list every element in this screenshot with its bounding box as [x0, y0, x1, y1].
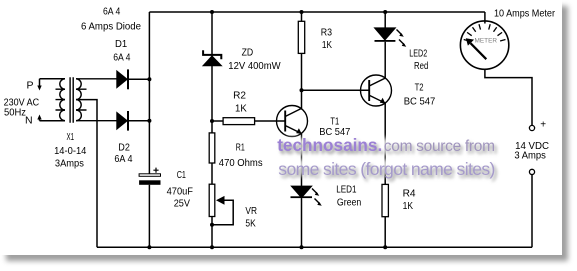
LED1 [291, 186, 322, 247]
svg-text:some sites (forgot name sites): some sites (forgot name sites) [278, 159, 494, 179]
resistor R3 [298, 12, 304, 109]
wire P lead [40, 78, 66, 80]
svg-text:5K: 5K [245, 218, 255, 230]
wire left vertical (rectifier output) [148, 12, 150, 247]
transistor T1 [277, 106, 308, 187]
svg-text:6A 4: 6A 4 [114, 153, 132, 165]
svg-text:technosains.: technosains. [277, 135, 382, 155]
wire N lead [40, 120, 66, 122]
svg-text:1K: 1K [403, 200, 413, 212]
terminal N arrow [37, 115, 41, 121]
svg-text:Red: Red [414, 60, 428, 72]
svg-text:N: N [25, 114, 33, 126]
diode D2 [117, 111, 150, 131]
resistor R1 [209, 121, 215, 184]
svg-text:R3: R3 [321, 27, 332, 39]
wire output negative [531, 175, 533, 248]
svg-text:3 Amps: 3 Amps [514, 150, 546, 161]
svg-text:6A 4: 6A 4 [113, 51, 130, 63]
svg-text:12V 400mW: 12V 400mW [228, 60, 280, 72]
diode D1 [117, 69, 150, 89]
svg-text:LED2: LED2 [409, 48, 427, 60]
svg-text:X1: X1 [67, 131, 75, 143]
wire bottom bus [97, 246, 532, 248]
meter M [460, 12, 532, 125]
svg-text:6A 4: 6A 4 [103, 5, 120, 17]
svg-text:VR: VR [245, 205, 257, 217]
svg-text:R1: R1 [236, 142, 245, 154]
svg-text:R4: R4 [403, 187, 416, 199]
terminal - output [529, 169, 534, 174]
transistor T2 [302, 75, 392, 184]
svg-text:T2: T2 [415, 81, 424, 93]
svg-text:470 Ohms: 470 Ohms [219, 157, 263, 169]
watermark line 2 [278, 159, 494, 179]
svg-text:10 Amps Meter: 10 Amps Meter [494, 8, 555, 20]
zener ZD [203, 12, 222, 121]
resistor R2 [212, 118, 285, 125]
terminal P arrow [37, 79, 41, 91]
potentiometer VR [209, 184, 233, 247]
svg-text:LED1: LED1 [336, 184, 356, 196]
svg-text:Green: Green [337, 197, 362, 209]
svg-text:METER: METER [475, 38, 498, 45]
svg-text:+: + [540, 119, 546, 130]
wire center tap [76, 100, 97, 248]
watermark glow bands [274, 138, 500, 175]
svg-text:6 Amps Diode: 6 Amps Diode [81, 20, 141, 32]
capacitor C1 [139, 168, 160, 185]
svg-text:P: P [27, 79, 34, 91]
terminal + output [529, 125, 534, 130]
svg-text:D1: D1 [115, 38, 127, 50]
svg-text:ZD: ZD [242, 47, 254, 59]
svg-text:BC 547: BC 547 [404, 95, 436, 107]
transformer X1 [56, 77, 117, 123]
svg-text:D2: D2 [118, 141, 130, 153]
svg-text:R2: R2 [233, 90, 246, 102]
svg-text:50Hz: 50Hz [4, 106, 26, 118]
svg-text:3Amps: 3Amps [55, 157, 84, 169]
watermark line 1 [277, 135, 495, 155]
svg-text:25V: 25V [174, 198, 190, 210]
resistor R4 [382, 184, 388, 247]
svg-text:470uF: 470uF [167, 186, 193, 198]
svg-text:1K: 1K [322, 39, 332, 51]
wire top bus [149, 11, 485, 13]
svg-text:com source from: com source from [384, 138, 495, 155]
svg-text:14-0-14: 14-0-14 [54, 145, 86, 157]
svg-text:C1: C1 [177, 169, 186, 181]
LED2 [375, 12, 407, 78]
svg-text:1K: 1K [235, 103, 247, 115]
